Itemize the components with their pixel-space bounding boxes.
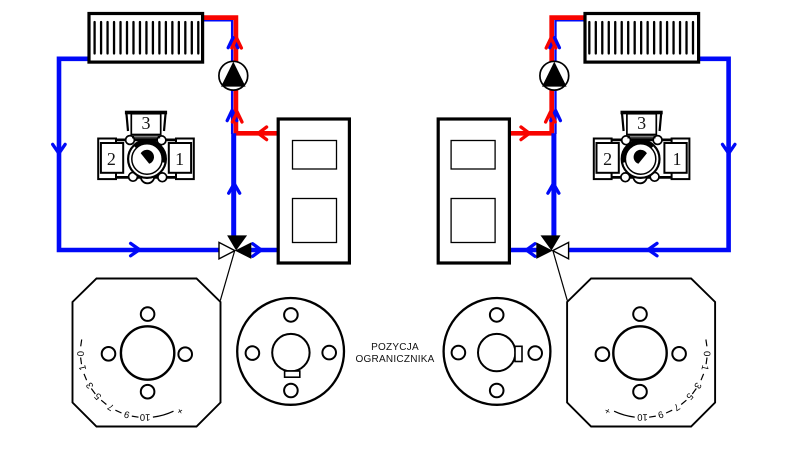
valve knob crescent (624, 142, 653, 162)
wire: blue return pipe, radiator outlet down left side and along bottom (59, 59, 220, 250)
adapter hole top (490, 308, 504, 322)
valve port 3 top bar (125, 111, 167, 115)
valve position wedge (634, 150, 647, 164)
flow arrow: red left, boiler to riser (258, 127, 266, 140)
flow arrow: red up, above pump (232, 38, 242, 48)
limiter hole right (596, 347, 610, 361)
pump impeller triangle (221, 62, 246, 87)
adapter hub (478, 334, 515, 371)
wire: red supply pipe radiator to pump riser to boiler (203, 18, 279, 134)
flow arrow: blue up, riser below junction (229, 184, 240, 194)
valve port 3 top bar (621, 111, 663, 115)
valve bump top-left (653, 136, 662, 145)
limiter hole top (633, 307, 647, 321)
valve port 1 box (169, 143, 191, 173)
valve port 1 box (597, 143, 619, 173)
mixing tee: open triangle left (219, 242, 235, 259)
valve bump top-right (622, 136, 631, 145)
flow arrow: blue right, bottom run (648, 243, 657, 255)
adapter hole right (452, 346, 466, 360)
leader line tee to limiter plate (220, 251, 234, 301)
boiler upper panel (293, 141, 337, 170)
svg-text:POZYCJA: POZYCJA (371, 342, 419, 353)
svg-text:10: 10 (637, 411, 648, 422)
flow arrow: red up, riser above junction (232, 112, 242, 122)
adapter hole bottom (284, 384, 298, 398)
mixing tee: solid triangle top (227, 235, 247, 250)
svg-text:10: 10 (140, 411, 151, 422)
flow arrow: blue up, riser above junction (227, 111, 237, 121)
svg-text:1: 1 (175, 149, 184, 169)
flow arrow: red left, boiler to riser (521, 127, 529, 140)
svg-text:1: 1 (673, 149, 682, 169)
radiator fins (95, 22, 199, 54)
flow arrow: red up, above pump (546, 38, 556, 48)
boiler upper panel (451, 141, 495, 170)
valve bump bottom-left (650, 172, 659, 181)
wire: thick blue riser from junction down to mixing tee (551, 133, 556, 237)
svg-text:3: 3 (142, 113, 151, 133)
radiator (585, 14, 699, 63)
svg-text:3: 3 (637, 113, 646, 133)
valve port 2 box (101, 143, 123, 173)
flow arrow: red up, riser above junction (546, 112, 556, 122)
right system (mirrored) (438, 14, 735, 427)
boiler lower panel (451, 199, 495, 243)
flow arrow: blue right, tee to boiler (526, 244, 535, 257)
adapter plate round (444, 298, 551, 405)
flow arrow: blue up, above pump (228, 38, 238, 48)
pump body (219, 61, 248, 90)
valve knob inner ring (625, 144, 655, 174)
svg-text:0: 0 (701, 351, 712, 356)
mixing tee: solid triangle right (536, 242, 552, 259)
svg-text:2: 2 (107, 149, 116, 169)
left limiter scale 0-10 (76, 340, 185, 423)
wire: blue return stub from tee into boiler (251, 248, 280, 253)
mixing valve body rails (608, 140, 676, 178)
valve bump top-left (126, 136, 135, 145)
pump body (540, 61, 569, 90)
adapter hole left (528, 346, 542, 360)
limiter hole bottom (141, 385, 155, 399)
valve port 1 flange (594, 139, 612, 180)
radiator fins (589, 22, 693, 54)
adapter hole bottom (490, 384, 504, 398)
valve boss bottom (141, 170, 155, 184)
adapter hole top (284, 308, 298, 322)
pump impeller triangle (542, 62, 567, 87)
limiter hole left (672, 347, 686, 361)
valve port 3 box (131, 114, 160, 135)
svg-text:2: 2 (603, 149, 612, 169)
valve port 3 sides (622, 112, 661, 131)
radiator (89, 14, 203, 63)
mixing valve body rails (112, 140, 180, 178)
wire: thick blue riser from junction down to mixing tee (231, 133, 236, 237)
limiter hole bottom (633, 385, 647, 399)
limiter hole left (102, 347, 116, 361)
valve port 3 sides (126, 112, 165, 131)
wire: red supply pipe radiator to pump riser to boiler (509, 18, 585, 134)
mixing tee: solid triangle right (235, 242, 251, 259)
boiler outline (438, 119, 509, 263)
boiler lower panel (293, 199, 337, 243)
leader line tee to limiter plate (553, 251, 567, 301)
valve port 3 lip (627, 136, 655, 138)
right adapter notch (right) (515, 346, 522, 361)
limiter plate octagon (73, 279, 221, 427)
svg-text:OGRANICZNIKA: OGRANICZNIKA (355, 354, 434, 365)
valve bump bottom-left (129, 172, 138, 181)
wire: blue return stub from tee into boiler (509, 248, 538, 253)
wire: thin blue line from radiator along riser down to junction (556, 20, 585, 134)
flow arrow: blue up, above pump (550, 38, 560, 48)
valve bump bottom-right (158, 173, 167, 182)
limiter hub (121, 326, 174, 379)
limiter hub (613, 326, 666, 379)
flow arrow: blue down, left drop (723, 144, 735, 153)
wire: blue return pipe, radiator outlet down left side and along bottom (568, 59, 729, 250)
left system (53, 14, 350, 427)
wire: thin blue line from radiator along riser down to junction (203, 20, 232, 134)
valve bump top-right (157, 136, 166, 145)
limiter plate octagon (567, 279, 715, 427)
adapter hub (272, 334, 309, 371)
limiter hole right (178, 347, 192, 361)
valve port 2 box (664, 143, 686, 173)
valve port 2 flange (672, 139, 690, 180)
svg-text:0: 0 (76, 351, 87, 356)
mixing tee: solid triangle top (541, 235, 561, 250)
flow arrow: blue right, tee to boiler (253, 244, 262, 257)
adapter hole right (322, 346, 336, 360)
adapter plate round (237, 298, 344, 405)
valve port 1 flange (176, 139, 194, 180)
flow arrow: blue up, riser above junction (551, 111, 561, 121)
left adapter notch (bottom) (285, 371, 300, 377)
right limiter scale 0-10 (602, 340, 712, 423)
valve knob inner ring (132, 144, 162, 174)
adapter hole left (246, 346, 260, 360)
valve knob outer (128, 140, 166, 178)
flow arrow: blue up, riser below junction (548, 184, 559, 194)
valve bump bottom-right (621, 173, 630, 182)
mixing tee: open triangle left (553, 242, 569, 259)
valve port 3 lip (132, 136, 160, 138)
valve knob crescent (135, 142, 164, 162)
valve port 3 box (627, 114, 656, 135)
flow arrow: blue right, bottom run (131, 243, 140, 255)
valve knob outer (622, 140, 660, 178)
valve boss bottom (633, 170, 647, 184)
flow arrow: blue down, left drop (53, 144, 65, 153)
valve port 2 flange (98, 139, 116, 180)
boiler outline (278, 119, 349, 263)
valve position wedge (141, 150, 154, 164)
limiter hole top (141, 307, 155, 321)
